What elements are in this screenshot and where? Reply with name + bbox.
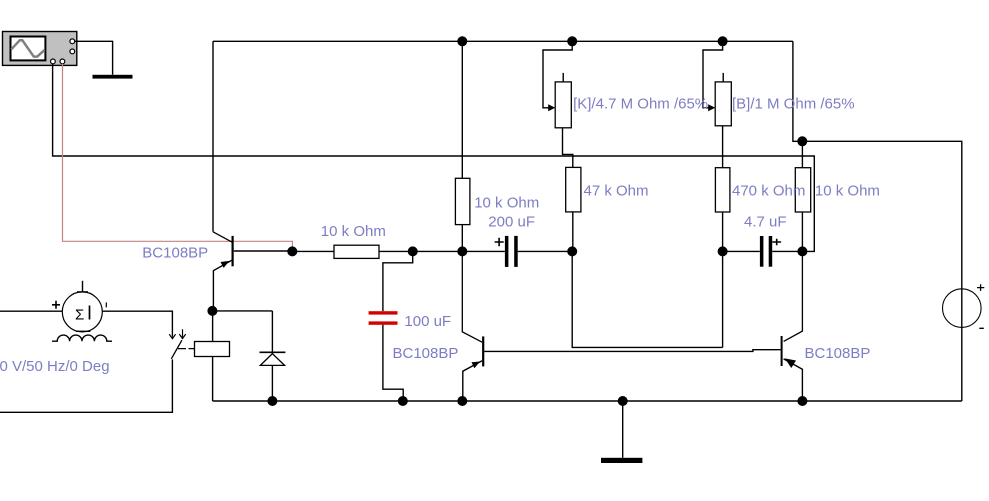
wire scope ground xyxy=(75,41,113,75)
transistor Q1 BC108BP xyxy=(213,232,292,311)
wire top rail down to R6 xyxy=(793,41,802,141)
wire node C down to bases rail xyxy=(572,251,722,347)
resistor R7 bottom lead xyxy=(722,212,724,251)
label Q3 xyxy=(805,345,871,362)
svg-text:BC108BP: BC108BP xyxy=(393,345,459,362)
svg-text:0 V/50 Hz/0 Deg: 0 V/50 Hz/0 Deg xyxy=(0,358,110,375)
capacitor C4 bottom lead xyxy=(383,325,403,401)
wire emitter node to diode branch xyxy=(212,310,272,312)
oscilloscope terminal A xyxy=(51,59,56,64)
resistor R6 10k body xyxy=(795,168,810,212)
svg-text:4.7 uF: 4.7 uF xyxy=(744,213,787,230)
node E output xyxy=(797,246,807,256)
capacitor C4 100uF top lead xyxy=(383,251,413,311)
inductor L1 xyxy=(52,335,112,341)
label V1 value xyxy=(0,358,110,375)
wire Q2 base to Q3 base xyxy=(484,350,780,352)
wire R1 to node A xyxy=(379,250,413,252)
svg-text:10 k Ohm: 10 k Ohm xyxy=(321,223,386,240)
wire base node to R1 xyxy=(292,250,334,252)
AC source V1 xyxy=(52,281,106,332)
wire emitter node to relay xyxy=(212,311,214,342)
node top rail at pot B xyxy=(718,36,728,46)
node B Q2 collector xyxy=(457,246,467,256)
wire pot K bottom to R3 top xyxy=(563,128,573,168)
node ground xyxy=(618,396,628,406)
oscilloscope XSC1 screen xyxy=(11,37,46,61)
svg-text:100 uF: 100 uF xyxy=(404,313,451,330)
svg-text:470 k Ohm: 470 k Ohm xyxy=(732,183,805,200)
oscilloscope terminal right-bottom xyxy=(70,49,75,54)
svg-text:200 uF: 200 uF xyxy=(488,214,535,231)
oscilloscope terminal B xyxy=(60,59,65,64)
label R3 value xyxy=(584,183,649,200)
wire node D to C3 xyxy=(723,250,760,252)
wire node B to C2 xyxy=(462,250,505,252)
potentiometer R5 [B] body xyxy=(715,73,731,126)
resistor R7 470k body xyxy=(715,168,730,212)
transistor Q2 BC108BP xyxy=(462,251,483,400)
node C4 bottom xyxy=(398,396,408,406)
resistor R2 top lead xyxy=(461,41,463,178)
node Q1 base xyxy=(287,246,297,256)
resistor R6 top lead xyxy=(801,141,803,167)
capacitor C4 100uF plates xyxy=(369,311,398,325)
ground scope xyxy=(93,75,133,79)
wire bottom rail xyxy=(213,400,962,402)
label C4 value xyxy=(404,313,451,330)
label pot B value xyxy=(732,96,855,113)
ground bar xyxy=(601,458,642,463)
svg-text:[K]/4.7 M Ohm /65%: [K]/4.7 M Ohm /65% xyxy=(573,96,708,113)
label R2 value xyxy=(474,195,539,212)
probe P1 circle xyxy=(943,284,985,328)
diode D1 xyxy=(260,352,286,401)
switch S1 xyxy=(169,329,194,359)
label C2 value xyxy=(488,214,535,231)
capacitor C2 200uF xyxy=(495,236,518,267)
label R7 value xyxy=(732,183,805,200)
wire V1 right to switch xyxy=(102,311,172,336)
label C3 value xyxy=(744,213,787,230)
svg-text:Σ: Σ xyxy=(75,307,84,324)
svg-text:[B]/1 M Ohm /65%: [B]/1 M Ohm /65% xyxy=(732,96,855,113)
wire diode top lead xyxy=(271,311,273,352)
resistor R6 bottom lead xyxy=(801,212,803,251)
node C R3 bottom xyxy=(567,246,577,256)
capacitor C3 4.7uF xyxy=(760,236,781,267)
wire C2 to node C xyxy=(518,250,573,252)
wire V1 left loop xyxy=(0,311,172,412)
label R1 value xyxy=(321,223,386,240)
potentiometer R5 wiper wire xyxy=(703,41,723,111)
node Q3 emitter xyxy=(797,396,807,406)
label R6 value xyxy=(815,183,880,200)
node R6 top xyxy=(797,136,807,146)
wire C3 to node E xyxy=(772,250,802,252)
relay coil K1 xyxy=(195,342,230,357)
node D R7 bottom xyxy=(718,246,728,256)
svg-text:BC108BP: BC108BP xyxy=(805,345,871,362)
wire rail descender to Q1 collector xyxy=(212,41,214,232)
wire scope channel B to output node xyxy=(53,64,815,252)
svg-text:10 k Ohm: 10 k Ohm xyxy=(474,195,539,212)
wire node A to node B xyxy=(413,250,463,252)
wire scope channel A (red) to base node xyxy=(63,64,293,250)
ground stem xyxy=(622,401,624,458)
node top rail at R2 xyxy=(457,36,467,46)
resistor R3 47k body xyxy=(566,167,581,212)
label Q1 xyxy=(142,244,208,261)
wire pot B bottom to R7 top xyxy=(722,126,724,168)
node A xyxy=(408,246,418,256)
node diode bottom xyxy=(267,396,277,406)
transistor Q3 BC108BP xyxy=(782,251,803,400)
node Q1 emitter xyxy=(207,306,217,316)
svg-text:10 k Ohm: 10 k Ohm xyxy=(815,183,880,200)
resistor R3 bottom lead xyxy=(572,212,574,252)
label Q2 xyxy=(393,345,459,362)
wire relay bottom to rail xyxy=(212,357,214,402)
oscilloscope XSC1 body xyxy=(3,32,77,66)
potentiometer R4 [K] body xyxy=(555,73,571,128)
oscilloscope terminal right-top xyxy=(70,39,75,44)
resistor R1 10k body xyxy=(334,245,379,258)
label pot K value xyxy=(573,96,708,113)
svg-text:BC108BP: BC108BP xyxy=(142,244,208,261)
resistor R2 bottom lead xyxy=(461,225,463,252)
potentiometer R4 wiper wire xyxy=(543,41,572,111)
svg-text:47 k Ohm: 47 k Ohm xyxy=(584,183,649,200)
wire node D down xyxy=(722,251,724,347)
node top rail at pot K xyxy=(567,36,577,46)
resistor R2 10k body xyxy=(455,178,470,224)
wire output node to load xyxy=(802,141,962,401)
node Q2 emitter xyxy=(457,396,467,406)
wire V+ top rail xyxy=(213,40,793,42)
